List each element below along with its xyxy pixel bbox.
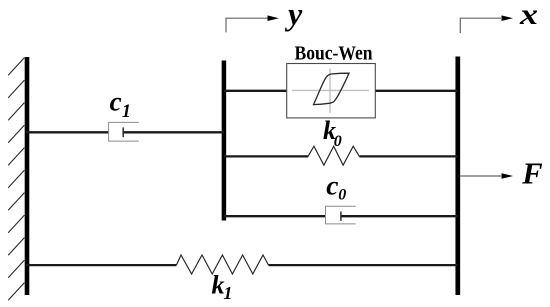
svg-text:0: 0: [338, 186, 346, 203]
svg-text:x: x: [519, 0, 538, 31]
svg-text:c: c: [326, 169, 338, 200]
svg-text:F: F: [521, 157, 542, 191]
svg-text:c: c: [110, 87, 122, 117]
svg-text:1: 1: [223, 283, 232, 303]
svg-text:0: 0: [334, 133, 342, 150]
svg-text:1: 1: [122, 102, 131, 122]
svg-text:Bouc-Wen: Bouc-Wen: [295, 42, 374, 64]
